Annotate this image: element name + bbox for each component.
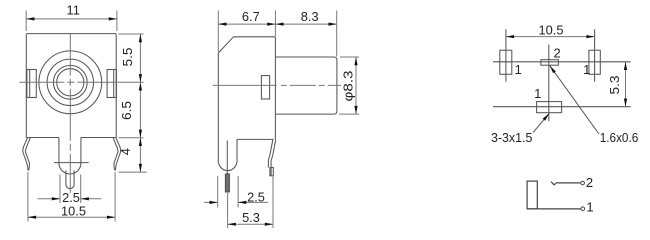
dim 2.5 ext lines [59,175,61,204]
dim 11 line [26,18,117,20]
svg-text:8.3: 8.3 [301,9,319,24]
body bottom edge right segment [81,137,116,139]
dim phi8.3 line [355,57,357,114]
dim 2.5 ext lines [217,176,219,208]
dim 8.3 line [275,23,336,25]
right leg tip [270,168,273,176]
crimp line across pin [54,162,89,164]
circle barrel rim outer [53,65,87,99]
dim 4 line [139,138,141,172]
tip lead to terminal 2 [558,182,581,184]
channel wall left [58,138,60,164]
svg-text:1: 1 [534,86,541,101]
side tab left fold line [29,70,31,98]
jack sleeve rectangle [527,181,537,209]
terminal circle 2 [581,181,585,185]
right leg outer line [271,139,276,175]
foot right inner line [113,138,118,171]
dim 6.7 line [218,23,275,25]
side tab right [107,70,116,98]
middle centerline [213,84,341,86]
circle outer [39,51,102,114]
dim 2.5 right arrow + tail [238,201,268,203]
slot rectangle [261,76,269,99]
dim chain right ext lines [119,33,144,35]
svg-text:11: 11 [67,2,80,17]
body right edge [274,37,276,140]
svg-text:6.7: 6.7 [242,9,260,24]
side tab right fold line [113,70,115,98]
svg-text:2: 2 [553,45,560,60]
barrel [275,57,337,114]
construction h-line bottom [493,106,631,108]
horizontal centerline [19,81,143,83]
svg-text:2.5: 2.5 [247,189,265,204]
dim 5.5 line [139,34,141,82]
body chamfer [218,37,233,53]
pin slot U [66,171,74,189]
center pin line [226,141,228,177]
dim 5.3 line [228,223,273,225]
circle second [47,59,93,105]
svg-text:5.3: 5.3 [242,210,260,225]
dim 6.5 line [139,82,141,138]
dim 10.5 footprint line [506,36,595,38]
svg-text:10.5: 10.5 [61,203,86,218]
svg-text:6.5: 6.5 [119,101,134,120]
v-line center [548,45,550,122]
dim 2.5 right arrow [81,198,102,200]
dimensions left view [26,11,147,222]
body bottom edge [237,138,274,140]
pad left [500,50,512,74]
svg-text:1.6x0.6: 1.6x0.6 [600,130,639,145]
pad center (2) [541,60,559,65]
channel wall right [80,138,82,164]
right leg inner line [268,139,273,167]
sleeve lead to terminal 1 [527,208,581,210]
dim 2.5 left arrow [204,201,218,203]
svg-text:1: 1 [583,62,590,77]
v-line left pad [505,29,507,81]
circle barrel rim inner [57,69,84,96]
v-line right pad [594,29,596,81]
body left edge / left leg [218,53,237,171]
body top edge [234,36,276,38]
svg-text:3-3x1.5: 3-3x1.5 [491,130,533,145]
body bottom edge left segment [26,137,59,139]
dim 11 ext lines [25,11,27,32]
leader to 1.6x0.6 [550,66,599,134]
centerlines left view [19,34,143,193]
center pin bar [225,174,229,192]
pin dome [59,163,81,174]
svg-text:5.3: 5.3 [607,76,622,95]
svg-text:4: 4 [118,148,133,155]
pad bottom (1) [537,102,562,113]
vertical centerline [69,34,71,193]
dim 10.5 line [28,216,115,218]
leader to 3-3x1.5 [533,113,549,132]
construction h-line top [493,61,631,63]
dim 2.5 left arrow [38,198,61,200]
svg-text:2: 2 [586,175,593,190]
foot left inner line [25,138,30,171]
side tab left [27,70,36,98]
dim 6.7/8.3 ext lines [217,11,219,53]
svg-text:10.5: 10.5 [539,22,564,37]
foot left outer line [23,138,28,171]
tip contact hook [551,182,558,185]
dim 10.5 ext lines [27,172,29,222]
pad right [589,50,600,74]
body outline [26,34,116,138]
terminal circle 1 [581,207,585,211]
dim 5.3 footprint line [625,62,627,107]
dim phi8.3 ext lines [340,56,359,58]
svg-text:φ8.3: φ8.3 [341,71,356,102]
svg-text:5.5: 5.5 [120,48,135,67]
foot right outer line [115,138,120,171]
svg-text:1: 1 [515,62,522,77]
svg-text:1: 1 [586,200,593,215]
dim 5.3 ext lines [227,193,229,228]
